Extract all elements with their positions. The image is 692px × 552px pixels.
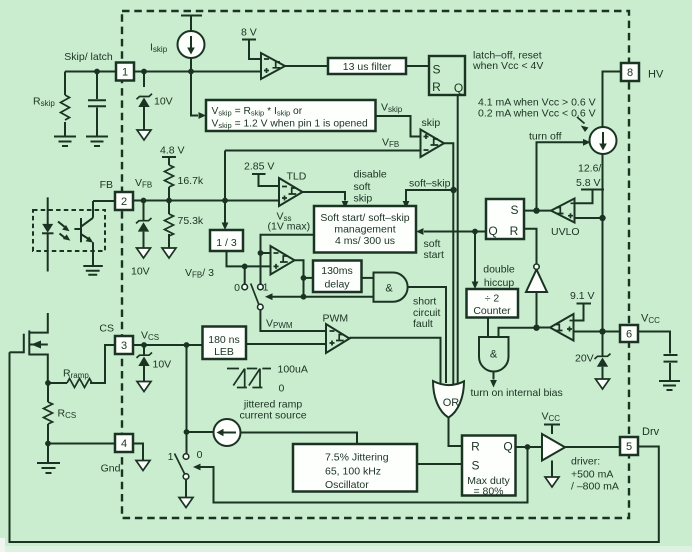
svg-text:100uA: 100uA	[278, 364, 308, 376]
svg-text:TLD: TLD	[287, 171, 307, 183]
svg-text:4 ms/ 300 us: 4 ms/ 300 us	[335, 235, 395, 247]
svg-text:skip: skip	[354, 193, 373, 205]
svg-text:soft–skip: soft–skip	[409, 178, 451, 190]
svg-text:Skip/ latch: Skip/ latch	[64, 51, 113, 63]
svg-text:+500 mA: +500 mA	[571, 469, 613, 481]
svg-text:(1V max): (1V max)	[268, 221, 311, 233]
svg-text:1 / 3: 1 / 3	[216, 237, 237, 249]
svg-text:Soft start/ soft–skip: Soft start/ soft–skip	[320, 212, 409, 224]
svg-text:÷ 2: ÷ 2	[485, 293, 500, 305]
svg-text:1: 1	[263, 282, 269, 294]
svg-text:0: 0	[197, 449, 203, 461]
svg-text:management: management	[334, 224, 395, 236]
svg-text:/ –800 mA: / –800 mA	[571, 481, 619, 493]
svg-text:20V: 20V	[575, 353, 594, 365]
svg-text:&: &	[490, 349, 498, 361]
svg-text:8: 8	[627, 67, 633, 79]
svg-text:double: double	[483, 264, 515, 276]
svg-text:short: short	[413, 296, 436, 308]
svg-text:delay: delay	[324, 279, 350, 291]
svg-text:10V: 10V	[131, 266, 150, 278]
svg-text:= 80%: = 80%	[473, 486, 503, 498]
svg-text:0: 0	[234, 282, 240, 294]
svg-text:skip: skip	[422, 117, 441, 129]
svg-text:HV: HV	[648, 69, 664, 81]
svg-text:12.6/: 12.6/	[578, 163, 601, 175]
svg-text:R: R	[432, 80, 441, 94]
svg-text:R: R	[510, 224, 519, 238]
svg-text:turn off: turn off	[529, 131, 562, 143]
svg-text:5: 5	[626, 441, 632, 453]
svg-text:driver:: driver:	[571, 456, 600, 468]
svg-text:LEB: LEB	[214, 346, 234, 358]
svg-text:OR: OR	[443, 397, 460, 409]
svg-text:6: 6	[626, 329, 632, 341]
svg-text:180 ns: 180 ns	[208, 334, 240, 346]
svg-text:PWM: PWM	[323, 313, 349, 325]
svg-text:3: 3	[121, 340, 127, 352]
svg-text:S: S	[432, 63, 440, 77]
svg-text:0.2 mA when Vcc < 0.6 V: 0.2 mA when Vcc < 0.6 V	[478, 108, 596, 120]
svg-text:Q: Q	[488, 224, 497, 238]
svg-text:fault: fault	[413, 318, 433, 330]
svg-text:16.7k: 16.7k	[178, 175, 204, 187]
svg-text:S: S	[510, 203, 518, 217]
svg-text:FB: FB	[100, 179, 113, 191]
svg-text:0: 0	[279, 383, 285, 395]
svg-text:current source: current source	[239, 410, 306, 422]
svg-text:4: 4	[121, 438, 127, 450]
svg-text:start: start	[424, 249, 445, 261]
svg-text:4.8 V: 4.8 V	[160, 145, 185, 157]
svg-text:8 V: 8 V	[241, 27, 257, 39]
svg-text:S: S	[471, 459, 479, 473]
svg-text:Oscillator: Oscillator	[325, 479, 369, 491]
svg-text:7.5% Jittering: 7.5% Jittering	[325, 452, 389, 464]
svg-text:Q: Q	[503, 440, 512, 454]
svg-text:Drv: Drv	[642, 426, 660, 438]
svg-text:5.8 V: 5.8 V	[576, 177, 601, 189]
svg-text:1: 1	[122, 67, 128, 79]
svg-text:hiccup: hiccup	[484, 277, 515, 289]
svg-text:13 us filter: 13 us filter	[343, 61, 392, 73]
svg-text:R: R	[471, 440, 480, 454]
svg-text:disable: disable	[354, 169, 387, 181]
svg-text:2.85 V: 2.85 V	[244, 161, 274, 173]
svg-text:Q: Q	[454, 81, 463, 95]
svg-text:Counter: Counter	[473, 305, 511, 317]
svg-text:75.3k: 75.3k	[178, 215, 204, 227]
svg-text:Gnd: Gnd	[101, 463, 121, 475]
svg-text:CS: CS	[99, 323, 114, 335]
svg-text:&: &	[385, 283, 393, 295]
svg-text:10V: 10V	[154, 96, 173, 108]
svg-text:1: 1	[168, 451, 174, 463]
svg-text:UVLO: UVLO	[551, 226, 580, 238]
svg-text:130ms: 130ms	[321, 265, 353, 277]
svg-text:turn on internal bias: turn on internal bias	[471, 387, 563, 399]
svg-text:soft: soft	[354, 181, 371, 193]
svg-text:10V: 10V	[153, 359, 172, 371]
svg-text:2: 2	[121, 196, 127, 208]
svg-text:65, 100 kHz: 65, 100 kHz	[325, 466, 381, 478]
svg-text:Vskip = 1.2 V when pin 1 is op: Vskip = 1.2 V when pin 1 is opened	[212, 119, 368, 130]
svg-text:Vskip = Rskip * Iskip or: Vskip = Rskip * Iskip or	[212, 106, 303, 117]
svg-text:when Vcc < 4V: when Vcc < 4V	[472, 60, 543, 72]
svg-text:9.1 V: 9.1 V	[570, 290, 595, 302]
